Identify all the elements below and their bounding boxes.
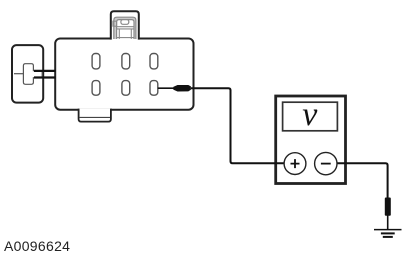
terminal lead lower <box>34 76 56 78</box>
minus sign <box>321 163 331 165</box>
cavity slot row1 col1 <box>92 54 100 69</box>
latch button <box>121 20 129 25</box>
probe tip <box>173 85 191 92</box>
svg-text:ν: ν <box>302 96 318 133</box>
latch leg left <box>118 29 120 39</box>
latch cross line 1 <box>117 26 134 28</box>
ground probe bar <box>385 198 391 216</box>
terminal plug outline <box>23 64 42 85</box>
connector body C1 <box>55 39 193 110</box>
latch detail inner <box>117 20 134 39</box>
latch cross line 2 <box>117 28 134 30</box>
voltmeter body U1 <box>276 96 346 184</box>
bottom index tab <box>79 109 111 122</box>
terminal lead upper <box>34 70 56 72</box>
plus terminal circle <box>284 153 306 175</box>
cavity slot row2 col1 <box>92 81 100 96</box>
cavity slot row2 col3 (probed) <box>150 81 158 96</box>
harness connector box <box>12 45 43 103</box>
minus terminal circle <box>315 152 337 174</box>
ground bar 3 <box>383 236 393 238</box>
latch detail outer <box>114 17 136 39</box>
cavity slot row2 col2 <box>122 81 130 96</box>
voltmeter display <box>283 102 338 131</box>
top latch tab <box>111 11 139 39</box>
cavity slot row1 col2 <box>122 54 130 69</box>
latch side lug <box>113 21 117 26</box>
cavity slot row1 col3 <box>150 54 158 69</box>
wire minus to ground corner <box>337 163 388 198</box>
latch leg right <box>130 29 132 39</box>
ground bar 1 <box>374 229 402 231</box>
ground lead <box>387 216 389 230</box>
probe lead line <box>158 87 174 89</box>
wire probe to corner <box>191 88 295 163</box>
ground bar 2 <box>381 232 395 234</box>
bottom tab inner line <box>80 116 110 118</box>
plus sign <box>291 159 300 168</box>
terminal pigtail line <box>14 73 23 75</box>
latch bottom line <box>117 37 134 39</box>
figure number label <box>4 238 70 253</box>
